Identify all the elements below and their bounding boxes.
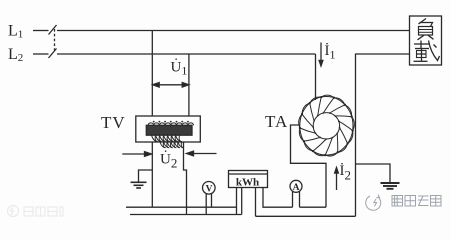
- wire rail 2 (TV secondary return bus): [130, 214, 242, 216]
- wire TV primary tap from L1: [151, 31, 153, 117]
- svg-text:V: V: [206, 184, 213, 194]
- wire kWh current stub 4 to ammeter: [263, 188, 293, 208]
- energy meter kWh box: [229, 171, 268, 188]
- current arrow I2: [335, 168, 339, 191]
- wire L2 stub: [33, 53, 49, 55]
- ammeter A: [290, 180, 302, 192]
- svg-text:TV: TV: [101, 113, 126, 132]
- svg-text:U̇1: U̇1: [171, 59, 188, 78]
- load box: [410, 16, 442, 65]
- transformer TV: [136, 116, 201, 148]
- svg-text:TA: TA: [265, 112, 288, 131]
- wire A stub right: [299, 191, 301, 207]
- current transformer TA toroid: [299, 95, 355, 156]
- wire A stub left: [292, 191, 294, 207]
- wire kWh voltage stub 2: [241, 188, 243, 215]
- ground (TV secondary): [131, 182, 147, 188]
- wire TV secondary lead b (to rail 2): [184, 142, 187, 215]
- watermark right (gray logo + text): [366, 195, 441, 211]
- wire TA ground branch: [356, 164, 391, 182]
- wire L1 line to load: [57, 30, 410, 32]
- label load char 负: [418, 19, 434, 40]
- wire TV primary tap from L2: [188, 54, 190, 116]
- svg-text:İ2: İ2: [340, 163, 352, 183]
- wire bottom line (TA circuit return): [256, 215, 356, 217]
- wire segment B (A meter to TA secondary): [300, 206, 327, 208]
- wire TV ground branch: [139, 170, 153, 182]
- wire TA secondary left lead: [291, 125, 327, 207]
- svg-text:L1: L1: [8, 22, 23, 40]
- svg-text:İ1: İ1: [325, 43, 336, 62]
- current arrow I1: [319, 43, 323, 67]
- wire L2 line: [57, 53, 316, 55]
- switch QS pole L1 blade: [49, 25, 57, 35]
- wire TV secondary lead a (to rail 1): [151, 142, 153, 207]
- wire TA primary drop (from L2): [315, 54, 317, 100]
- wire kWh voltage stub 1: [236, 188, 238, 215]
- svg-text:L2: L2: [8, 46, 23, 64]
- watermark left (faint logo): [8, 206, 64, 217]
- wire kWh current stub 3: [255, 188, 257, 217]
- switch QS linkage (dashed): [54, 29, 56, 53]
- wire V stub right: [211, 194, 213, 207]
- wire L1 stub: [33, 30, 49, 32]
- svg-text:U̇2: U̇2: [160, 151, 177, 171]
- svg-text:A: A: [293, 183, 300, 193]
- switch QS pole L2 blade: [49, 49, 57, 59]
- ground (TA secondary): [381, 183, 400, 189]
- wire rail 1 (TV secondary bus): [126, 206, 237, 208]
- voltmeter V: [203, 182, 216, 195]
- label load char 载: [414, 41, 440, 62]
- measurement arrows U2: [122, 151, 216, 156]
- measurement arrow U1: [153, 83, 189, 88]
- wire load riser and lower load wire: [356, 54, 410, 216]
- svg-text:kWh: kWh: [236, 177, 259, 189]
- wire V stub left: [205, 194, 207, 215]
